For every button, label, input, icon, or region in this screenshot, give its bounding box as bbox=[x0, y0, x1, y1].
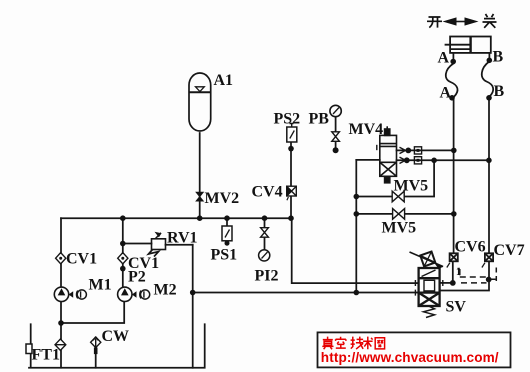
svg-text:PI2: PI2 bbox=[255, 268, 279, 285]
SV proportional solenoid bbox=[410, 252, 444, 269]
cylinder actuator bbox=[445, 37, 491, 53]
pressure switch PS2 bbox=[287, 124, 297, 143]
wire M1 pump outlet bottom bbox=[60, 301, 62, 323]
svg-text:MV4: MV4 bbox=[349, 121, 384, 138]
wire FT1 suction drop bbox=[60, 323, 62, 368]
cooler CW bbox=[91, 337, 101, 354]
check valve CV7 bbox=[485, 253, 493, 261]
pump M2 bbox=[118, 287, 150, 301]
wire MV5 upper bypass bbox=[356, 160, 434, 196]
hose B flexible bbox=[482, 62, 493, 97]
svg-text:CV7: CV7 bbox=[494, 242, 525, 259]
wire B line down bbox=[488, 99, 490, 254]
wire RV1 drain to tank bbox=[192, 245, 194, 368]
svg-text:RV1: RV1 bbox=[167, 230, 198, 247]
svg-text:B: B bbox=[493, 49, 504, 66]
svg-text:A1: A1 bbox=[214, 72, 234, 89]
wire CW stub bbox=[95, 347, 97, 367]
svg-text:M2: M2 bbox=[154, 282, 177, 299]
MV4 port fittings right bbox=[400, 147, 422, 164]
wire main manifold line bbox=[61, 217, 292, 219]
svg-text:MV2: MV2 bbox=[205, 190, 240, 207]
valve MV5 upper bbox=[392, 191, 404, 202]
wire PS1 stub bbox=[226, 218, 228, 226]
gauge PI2 bbox=[259, 250, 270, 261]
wire CV4 PS2 branch bbox=[290, 142, 292, 218]
svg-text:CV1: CV1 bbox=[66, 251, 97, 268]
wire MV4 right port 1 bbox=[397, 149, 454, 151]
check valve CV6 bbox=[450, 253, 458, 261]
accumulator A1 bbox=[189, 73, 211, 131]
wire accumulator MV2 branch bbox=[199, 133, 201, 218]
wire MV5 lower bypass bbox=[356, 213, 454, 215]
wire vertical trunk from MV4 bbox=[355, 160, 357, 293]
wire tank outline bbox=[29, 324, 205, 368]
svg-text:SV: SV bbox=[446, 299, 467, 316]
wire CV6 to corner bbox=[452, 261, 454, 283]
valve PB shutoff bbox=[332, 132, 340, 142]
wire MV4 left port bbox=[356, 159, 380, 161]
label kai (open) bbox=[427, 17, 442, 28]
valve MV5 lower bbox=[393, 209, 405, 220]
svg-text:MV5: MV5 bbox=[394, 178, 429, 195]
wire A line down bbox=[453, 99, 455, 254]
svg-text:B: B bbox=[494, 83, 505, 100]
open close arrow bbox=[443, 17, 479, 25]
wire RV1 inlet bbox=[123, 243, 152, 245]
solenoid valve MV4 bbox=[377, 126, 397, 182]
hose A flexible bbox=[446, 64, 458, 98]
check valve CV1 left bbox=[56, 253, 66, 264]
svg-text:http://www.chvacuum.com/: http://www.chvacuum.com/ bbox=[321, 350, 499, 365]
svg-text:CW: CW bbox=[102, 328, 130, 345]
svg-text:P2: P2 bbox=[128, 269, 146, 286]
watermark chinese glyphs bbox=[322, 337, 384, 350]
valve MV2 bbox=[196, 192, 203, 201]
SV port ticks bbox=[415, 280, 442, 296]
svg-text:PS1: PS1 bbox=[211, 247, 238, 264]
wire left pump branch bbox=[60, 218, 62, 287]
SV spring bbox=[424, 306, 435, 318]
pressure switch PS1 bbox=[222, 226, 232, 241]
gauge PB bbox=[330, 105, 341, 116]
check valve CV1 right bbox=[118, 253, 128, 264]
valve PI2 shutoff bbox=[261, 228, 269, 238]
watermark box bbox=[318, 332, 511, 367]
svg-text:FT1: FT1 bbox=[32, 347, 60, 364]
pilot line dashed to CV7 bbox=[458, 268, 497, 283]
servo valve SV bbox=[419, 268, 440, 306]
wire second pump branch bbox=[122, 218, 124, 287]
svg-text:CV4: CV4 bbox=[252, 184, 283, 201]
svg-text:MV5: MV5 bbox=[382, 220, 417, 237]
wire PI2 stub bbox=[264, 218, 266, 250]
wire manifold to SV pressure line bbox=[292, 218, 419, 283]
wire tank return line bbox=[193, 292, 419, 294]
wire cylinder A port stub bbox=[452, 53, 454, 61]
svg-text:CV6: CV6 bbox=[455, 239, 486, 256]
relief valve RV1 bbox=[149, 232, 166, 257]
tick near CV6 bbox=[447, 263, 450, 268]
check valve CV4 bbox=[287, 186, 297, 200]
wire CV7 down to SV B port bbox=[440, 261, 489, 290]
sight gauge on tank wall bbox=[26, 344, 32, 354]
svg-text:M1: M1 bbox=[89, 277, 112, 294]
svg-text:PB: PB bbox=[309, 111, 330, 128]
wire SV A port bbox=[440, 282, 453, 284]
svg-text:A: A bbox=[440, 85, 452, 102]
label guan (close) bbox=[483, 14, 497, 28]
wire PB stub bbox=[335, 117, 337, 150]
wire cylinder B port stub bbox=[488, 53, 490, 60]
svg-text:A: A bbox=[438, 50, 450, 67]
wire MV4 right port 2 bbox=[397, 159, 489, 161]
wire RV1 outlet bbox=[166, 244, 193, 246]
filter FT1 bbox=[55, 339, 66, 350]
svg-text:1: 1 bbox=[456, 267, 461, 278]
wire suction header bbox=[61, 301, 124, 323]
svg-text:PS2: PS2 bbox=[274, 111, 301, 128]
pump M1 bbox=[54, 287, 86, 301]
tick near CV7 bbox=[482, 263, 485, 268]
